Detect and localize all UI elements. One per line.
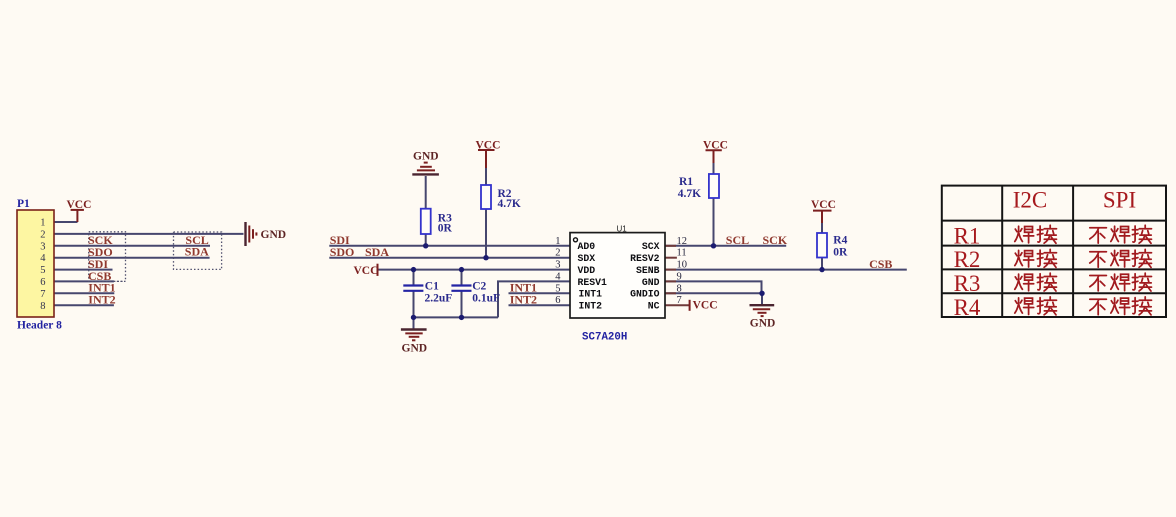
- svg-text:R2: R2: [954, 247, 981, 272]
- svg-text:9: 9: [677, 271, 682, 282]
- svg-text:RESV2: RESV2: [630, 253, 660, 264]
- svg-text:SENB: SENB: [636, 265, 660, 276]
- svg-text:C2: C2: [472, 281, 486, 293]
- svg-text:10: 10: [677, 260, 688, 271]
- svg-text:R1: R1: [954, 223, 981, 248]
- svg-text:CSB: CSB: [869, 257, 892, 271]
- svg-text:8: 8: [40, 301, 45, 312]
- svg-text:R4: R4: [833, 235, 847, 247]
- svg-text:NC: NC: [648, 301, 660, 312]
- svg-text:7: 7: [40, 289, 45, 300]
- svg-text:SDX: SDX: [578, 253, 596, 264]
- svg-text:C1: C1: [425, 281, 439, 293]
- svg-text:VCC: VCC: [67, 199, 92, 211]
- svg-text:1: 1: [555, 236, 560, 247]
- svg-text:2.2uF: 2.2uF: [425, 293, 453, 305]
- svg-text:11: 11: [677, 248, 687, 259]
- svg-text:SCX: SCX: [642, 241, 660, 252]
- svg-text:R1: R1: [679, 176, 693, 188]
- svg-text:SCL: SCL: [726, 233, 749, 247]
- svg-text:I2C: I2C: [1013, 188, 1048, 213]
- svg-text:8: 8: [677, 283, 682, 294]
- svg-text:12: 12: [677, 236, 688, 247]
- svg-text:Header 8: Header 8: [17, 320, 62, 332]
- svg-text:VDD: VDD: [578, 265, 596, 276]
- svg-text:GND: GND: [750, 317, 776, 329]
- svg-text:6: 6: [40, 277, 45, 288]
- svg-text:VCC: VCC: [693, 300, 718, 312]
- svg-text:1: 1: [40, 218, 45, 229]
- svg-text:0R: 0R: [833, 246, 848, 258]
- svg-text:R3: R3: [954, 271, 981, 296]
- svg-text:5: 5: [555, 283, 560, 294]
- svg-text:4.7K: 4.7K: [678, 188, 701, 200]
- svg-text:0.1uF: 0.1uF: [472, 293, 500, 305]
- svg-text:3: 3: [40, 241, 45, 252]
- svg-text:5: 5: [40, 265, 45, 276]
- svg-text:4.7K: 4.7K: [498, 198, 521, 210]
- svg-text:VCC: VCC: [476, 139, 501, 151]
- svg-text:2: 2: [555, 248, 560, 259]
- svg-text:4: 4: [40, 253, 46, 264]
- svg-text:INT2: INT2: [510, 293, 537, 307]
- svg-text:SDO: SDO: [330, 245, 355, 259]
- svg-text:0R: 0R: [438, 223, 453, 235]
- svg-text:4: 4: [555, 271, 561, 282]
- svg-text:3: 3: [555, 260, 560, 271]
- svg-text:INT2: INT2: [579, 301, 603, 312]
- svg-text:R4: R4: [954, 295, 981, 320]
- svg-text:SDA: SDA: [365, 245, 389, 259]
- svg-text:GND: GND: [402, 342, 428, 354]
- svg-text:VCC: VCC: [703, 140, 728, 152]
- svg-text:U1: U1: [617, 225, 628, 234]
- svg-text:2: 2: [40, 229, 45, 240]
- svg-text:GNDIO: GNDIO: [630, 289, 660, 300]
- svg-text:6: 6: [555, 295, 560, 306]
- svg-text:GND: GND: [413, 150, 439, 162]
- svg-text:SPI: SPI: [1103, 188, 1136, 213]
- svg-text:VCC: VCC: [354, 265, 379, 277]
- svg-text:GND: GND: [261, 229, 287, 241]
- svg-text:INT2: INT2: [88, 293, 115, 307]
- svg-text:SC7A20H: SC7A20H: [582, 332, 627, 344]
- svg-text:7: 7: [677, 295, 682, 306]
- svg-text:GND: GND: [642, 277, 660, 288]
- svg-text:VCC: VCC: [811, 199, 836, 211]
- svg-text:SDA: SDA: [185, 245, 209, 259]
- svg-text:INT1: INT1: [579, 289, 603, 300]
- svg-text:RESV1: RESV1: [578, 277, 608, 288]
- svg-text:P1: P1: [17, 198, 30, 210]
- svg-text:AD0: AD0: [578, 241, 596, 252]
- svg-text:SCK: SCK: [763, 233, 788, 247]
